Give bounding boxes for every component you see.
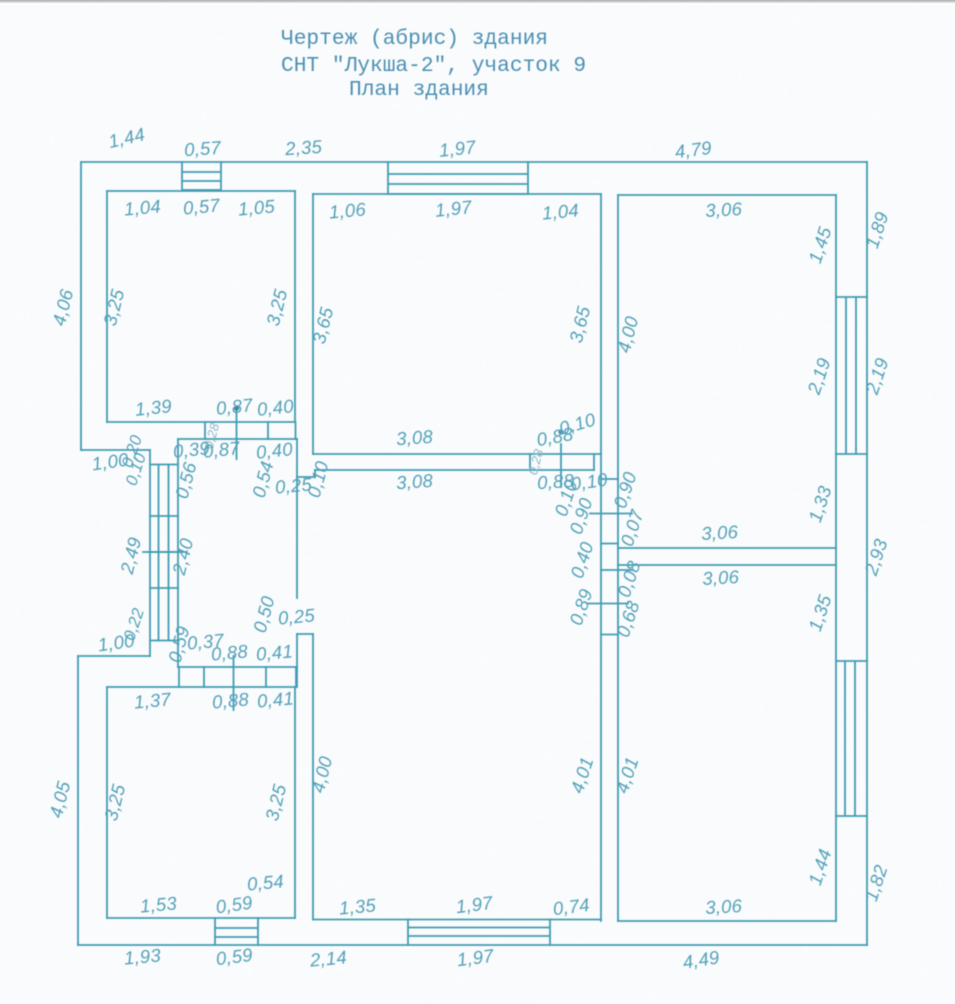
svg-text:0,40: 0,40 [256, 395, 295, 420]
svg-text:3,08: 3,08 [395, 426, 434, 450]
svg-text:1,93: 1,93 [123, 944, 162, 968]
svg-text:0,40: 0,40 [255, 438, 294, 463]
hall bottom wall [178, 666, 297, 668]
svg-text:1,05: 1,05 [237, 195, 276, 219]
step vertical at hall top right [314, 470, 316, 477]
window W3 right wall [836, 297, 867, 454]
corridor tick 0,90 upper [590, 513, 632, 515]
corridor tick short 2 [601, 634, 618, 636]
svg-text:0,54: 0,54 [246, 870, 285, 894]
hall right wall [296, 439, 298, 598]
svg-text:2,35: 2,35 [283, 136, 323, 160]
svg-text:3,06: 3,06 [705, 895, 743, 918]
hall top wall [178, 438, 297, 440]
wall outer left lower [77, 656, 79, 945]
corridor right wall [617, 195, 619, 921]
window W6 bottom wall [408, 920, 550, 946]
svg-text:0,41: 0,41 [255, 640, 294, 664]
stairs rungs [150, 465, 178, 641]
hall right wall lower [296, 634, 298, 687]
dimension line 0,88 tambour [233, 656, 235, 710]
window W2 top wall [388, 162, 528, 194]
svg-text:1,97: 1,97 [434, 196, 473, 221]
svg-text:0,87: 0,87 [215, 394, 254, 419]
room4 left wall [312, 634, 314, 920]
wall outer bottom [78, 944, 867, 946]
svg-text:0,25: 0,25 [277, 604, 316, 628]
svg-text:1,39: 1,39 [134, 395, 173, 420]
svg-text:0,87: 0,87 [202, 437, 241, 462]
hall left wall [177, 439, 179, 667]
svg-text:3,08: 3,08 [395, 470, 434, 494]
wall outer top [81, 161, 867, 163]
inner right wall line [835, 195, 837, 921]
room2 bottom wall lower line [315, 469, 594, 471]
room3 top wall [618, 194, 836, 196]
svg-text:СНТ "Лукша-2", участок 9: СНТ "Лукша-2", участок 9 [281, 54, 586, 78]
room5 bottom wall [618, 920, 836, 922]
corridor tick short 1 [601, 479, 618, 544]
room6 left wall [106, 687, 108, 918]
room2 top wall [313, 193, 601, 195]
svg-text:1,97: 1,97 [438, 136, 477, 161]
room2 left wall [312, 194, 314, 454]
wall jog bottom [78, 655, 150, 657]
room3 bottom wall [618, 547, 836, 549]
corridor left wall [600, 194, 602, 921]
svg-text:1,35: 1,35 [338, 894, 377, 918]
svg-text:План здания: План здания [349, 78, 489, 102]
room4 top ledge [297, 633, 313, 635]
svg-text:0,41: 0,41 [256, 687, 295, 711]
svg-text:0,57: 0,57 [183, 137, 222, 161]
svg-text:4,79: 4,79 [674, 137, 713, 162]
svg-text:1,37: 1,37 [133, 688, 172, 712]
ledge to hall [297, 476, 315, 478]
stairs in niche: side rails [159, 465, 169, 641]
room6 top wall [107, 686, 295, 688]
corridor tick 0,89 [588, 603, 628, 605]
svg-text:0,74: 0,74 [552, 894, 591, 919]
door ticks room1 to hall [205, 422, 296, 439]
wall outer left upper [80, 162, 82, 450]
stairs dim tick 2,49 [143, 551, 186, 553]
dimension line 0,87 room1 [236, 409, 238, 459]
svg-text:Чертеж (абрис) здания: Чертеж (абрис) здания [281, 27, 548, 51]
room4 bottom wall [313, 919, 601, 921]
room1 right wall [294, 191, 296, 422]
room1 bottom wall [107, 421, 295, 423]
svg-text:0,59: 0,59 [215, 944, 254, 969]
svg-text:0,57: 0,57 [182, 194, 221, 218]
door ticks hall to room6 [179, 667, 296, 687]
svg-text:0,88: 0,88 [211, 688, 250, 712]
svg-text:3,06: 3,06 [705, 198, 743, 221]
room5 top wall [618, 564, 836, 566]
room6 bottom wall [107, 917, 295, 919]
corridor tick 0,40 [601, 569, 633, 571]
wall jog vertical [149, 450, 151, 656]
room2 bottom wall connector [530, 454, 594, 470]
svg-text:0,88: 0,88 [210, 640, 249, 664]
window W1 top wall [182, 162, 221, 190]
room2 bottom wall upper line [313, 453, 601, 455]
svg-text:3,06: 3,06 [701, 521, 739, 544]
svg-text:1,06: 1,06 [328, 198, 367, 222]
dimension line 0,88 room2 door [560, 444, 562, 487]
room1 left wall [106, 191, 108, 422]
room6 right wall [294, 687, 296, 918]
svg-text:3,06: 3,06 [702, 566, 740, 589]
svg-text:1,04: 1,04 [541, 199, 580, 223]
room1 top wall [107, 190, 295, 192]
dimension dot 2 [558, 429, 563, 434]
wall outer right [866, 162, 868, 945]
svg-text:1,53: 1,53 [139, 892, 178, 916]
svg-text:1,04: 1,04 [123, 195, 162, 219]
window W4 right wall [836, 661, 867, 816]
window W5 bottom wall [215, 918, 258, 945]
dimension dot [234, 405, 239, 410]
wall jog top [81, 449, 150, 451]
svg-text:2,14: 2,14 [308, 946, 347, 970]
